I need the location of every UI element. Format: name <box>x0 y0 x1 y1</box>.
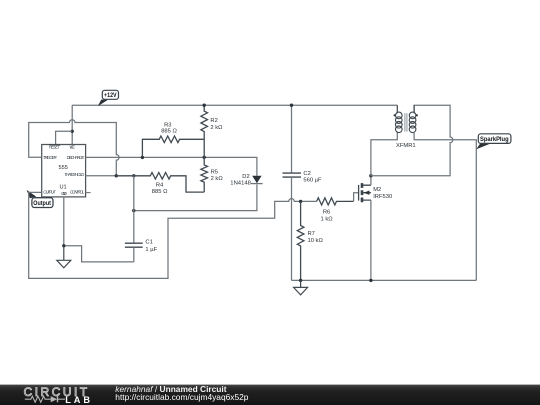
resistor R5 <box>201 157 208 192</box>
svg-text:C2: C2 <box>303 171 310 177</box>
svg-text:LAB: LAB <box>65 395 93 405</box>
node: R3 tap on discharge wire <box>141 156 144 159</box>
svg-text:CONTROL: CONTROL <box>70 189 85 194</box>
capacitor C2 <box>283 105 302 280</box>
wire: +12V top rail <box>72 104 397 106</box>
node: R7 bottom on ground rail <box>299 279 302 282</box>
svg-text:R2: R2 <box>210 118 217 124</box>
svg-text:XFMR1: XFMR1 <box>396 143 416 149</box>
net flag Output <box>27 190 53 208</box>
node: R2/R5 tap on discharge wire <box>203 156 206 159</box>
svg-text:TRIGGER: TRIGGER <box>43 155 58 160</box>
wire: discharge run to D2 <box>86 157 257 175</box>
node: C1 branch junction <box>132 174 135 177</box>
resistor R3 <box>142 136 204 157</box>
transistor M2 (IRF530 n-mosfet) <box>354 176 371 281</box>
wire: primary bottom to drain junction <box>371 132 397 176</box>
svg-text:R3: R3 <box>164 122 171 128</box>
svg-text:1 µF: 1 µF <box>145 247 157 253</box>
node: ground junction <box>62 244 65 247</box>
wire: GND pin drop <box>63 197 65 246</box>
IC U1 555 timer <box>42 145 86 197</box>
wire: ground rail <box>292 279 477 281</box>
resistor R2 <box>201 105 208 157</box>
wire: secondary bottom spark lead <box>414 132 476 281</box>
svg-text:555: 555 <box>59 165 68 171</box>
svg-text:THRESHOLD: THRESHOLD <box>64 172 85 177</box>
ground (main) <box>294 280 308 295</box>
node: C2 top on rail <box>290 104 293 107</box>
svg-text:R4: R4 <box>156 183 164 189</box>
svg-text:R6: R6 <box>323 210 330 216</box>
svg-text:OUTPUT: OUTPUT <box>43 189 56 194</box>
resistor R4 <box>116 173 204 193</box>
node: M2 source on ground rail <box>369 279 372 282</box>
ground (left) <box>57 246 71 268</box>
node: R2 top on rail <box>203 104 206 107</box>
svg-text:1 kΩ: 1 kΩ <box>321 216 334 222</box>
capacitor C1 <box>125 176 143 262</box>
power flag +12V <box>98 90 119 106</box>
svg-text:R5: R5 <box>211 170 218 176</box>
svg-text:VCC: VCC <box>69 145 76 150</box>
net flag SparkPlug <box>476 134 511 150</box>
node: R7 tap on gate wire <box>299 200 302 203</box>
node: threshold/R4 junction <box>115 174 118 177</box>
diode D2 1N4148 <box>251 176 263 184</box>
svg-text:SparkPlug: SparkPlug <box>480 136 509 143</box>
wire: trigger-threshold link (hops over VCC drop and discharge wire) <box>29 120 119 176</box>
svg-text:U1: U1 <box>60 185 67 191</box>
svg-text:C1: C1 <box>145 240 152 246</box>
svg-text:2 kΩ: 2 kΩ <box>210 125 223 131</box>
node: VCC/RESET split junction <box>71 130 74 133</box>
svg-text:Output: Output <box>33 200 51 207</box>
svg-text:10 kΩ: 10 kΩ <box>308 238 324 244</box>
svg-text:560 µF: 560 µF <box>303 177 322 183</box>
wire: C1 bottom to ground node <box>64 246 134 262</box>
svg-text:IRF530: IRF530 <box>373 194 392 200</box>
transformer XFMR1 <box>394 105 418 132</box>
svg-text:GND: GND <box>61 191 68 196</box>
wire: D2 cathode to C1 top <box>134 185 257 211</box>
svg-text:2 kΩ: 2 kΩ <box>211 176 224 182</box>
node: C1 top / D2 wire junction <box>132 209 135 212</box>
svg-text:D2: D2 <box>242 174 249 180</box>
svg-text:R7: R7 <box>308 231 315 237</box>
svg-text:885 Ω: 885 Ω <box>152 189 168 195</box>
wire: RESET branch <box>56 131 73 144</box>
svg-text:+12V: +12V <box>104 92 117 99</box>
svg-text:RESET: RESET <box>49 145 61 150</box>
resistor R6 <box>317 198 354 205</box>
svg-text:885 Ω: 885 Ω <box>161 129 177 135</box>
svg-text:1N4148: 1N4148 <box>230 180 251 186</box>
wire: VCC drop from rail <box>71 105 73 144</box>
node: M2 drain junction <box>369 174 372 177</box>
logo resistor-diode squiggle <box>25 396 65 402</box>
wire: threshold stub <box>86 175 117 177</box>
svg-text:DISCHARGE: DISCHARGE <box>67 155 85 160</box>
wire: output loop to gate (hops over C2) <box>29 192 317 278</box>
resistor R7 <box>297 201 304 280</box>
pin CONTROL stub <box>86 192 91 194</box>
wire: secondary top loop to drain junction (hops over spark lead) <box>371 105 453 176</box>
svg-text:http://circuitlab.com/cujm4yaq: http://circuitlab.com/cujm4yaq6x52p <box>115 392 248 402</box>
footer bar <box>0 385 540 405</box>
svg-text:M2: M2 <box>373 187 381 193</box>
